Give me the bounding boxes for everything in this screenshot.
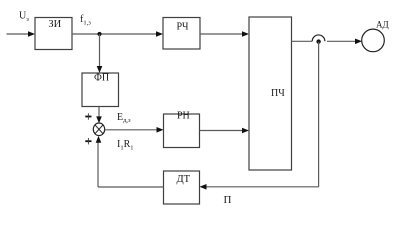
arrowhead into AD bbox=[355, 39, 362, 45]
wire tap down to feedback row bbox=[318, 42, 320, 187]
svg-text:ПЧ: ПЧ bbox=[271, 88, 285, 99]
wire RCh to PCh bbox=[200, 33, 243, 35]
wire feedback row to DT bbox=[206, 186, 319, 188]
arrowhead into DT right bbox=[200, 184, 207, 190]
summing junction (circle with X) bbox=[93, 123, 104, 136]
svg-text:ДТ: ДТ bbox=[177, 174, 191, 185]
arrowhead into FP bbox=[97, 66, 103, 73]
wire hop over tap bbox=[312, 35, 325, 41]
block FP (ФП) bbox=[82, 73, 119, 107]
label plus upper bbox=[85, 113, 91, 119]
label plus lower bbox=[85, 138, 91, 144]
svg-text:РН: РН bbox=[177, 111, 190, 122]
svg-text:П: П bbox=[224, 194, 232, 206]
wire PCh output right segment bbox=[327, 40, 356, 42]
block RCh (РЧ) bbox=[163, 18, 200, 50]
block DT (ДТ) bbox=[164, 171, 200, 204]
svg-text:РЧ: РЧ bbox=[177, 22, 190, 33]
arrowhead into ZI bbox=[28, 31, 35, 37]
arrowhead into PCh upper bbox=[242, 31, 249, 37]
svg-text:ФП: ФП bbox=[94, 73, 109, 84]
wire RN to PCh bbox=[200, 130, 244, 132]
junction dot node f1z bbox=[97, 32, 101, 36]
arrowhead into RCh bbox=[156, 31, 163, 37]
arrowhead into summer bottom bbox=[96, 136, 102, 143]
motor AD circle (АД) bbox=[362, 29, 385, 52]
arrowhead into PCh lower bbox=[242, 128, 249, 134]
block ZI (ЗИ) bbox=[35, 18, 72, 50]
wire junction down to FP bbox=[99, 34, 101, 68]
block RN (РН) bbox=[164, 111, 200, 148]
wire PCh output left segment bbox=[292, 40, 313, 42]
arrowhead into RN bbox=[157, 127, 164, 133]
wire DT left to corner bbox=[98, 186, 164, 188]
wire corner up to summer bbox=[97, 141, 99, 187]
tap dot node bbox=[316, 39, 320, 43]
svg-text:АД: АД bbox=[376, 20, 389, 30]
wire FP to summer bbox=[98, 107, 100, 118]
wire ZI to RCh bbox=[72, 33, 157, 35]
arrowhead into summer top bbox=[96, 116, 102, 123]
wire input to ZI bbox=[7, 33, 30, 35]
wire summer to RN bbox=[105, 129, 158, 131]
svg-text:ЗИ: ЗИ bbox=[48, 19, 61, 30]
block PCh (ПЧ) bbox=[249, 17, 292, 170]
